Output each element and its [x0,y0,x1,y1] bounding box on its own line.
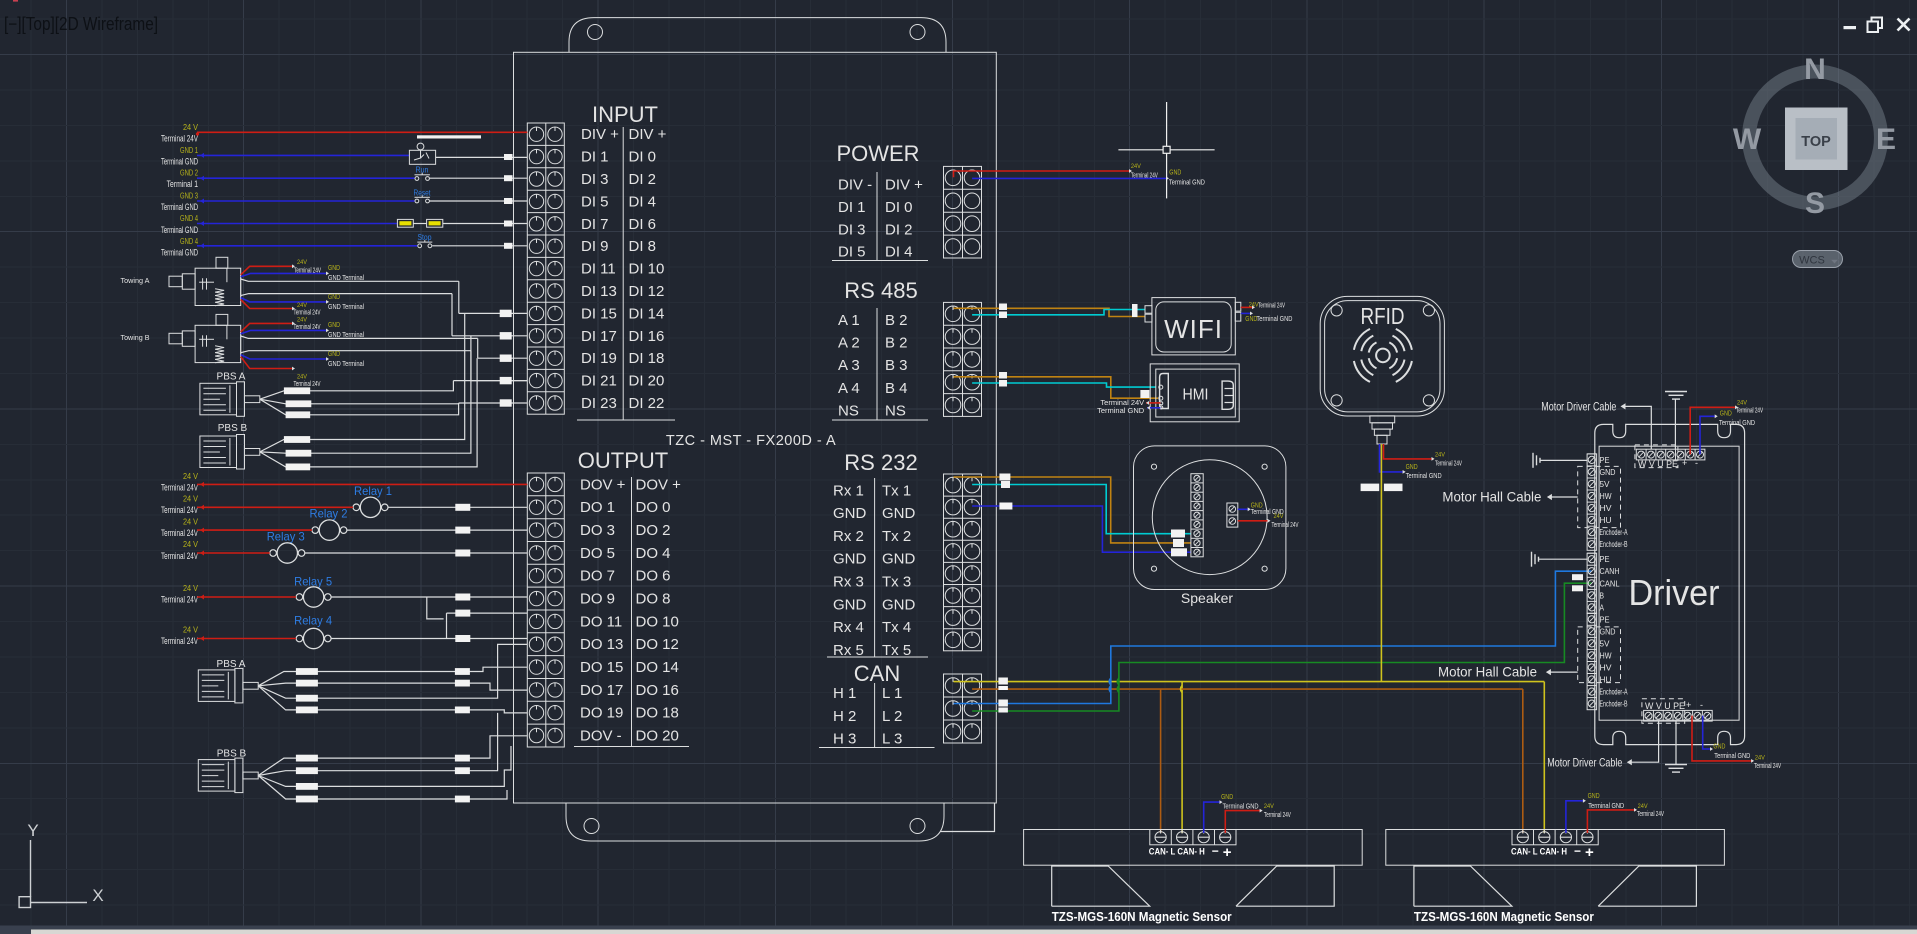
Driver top terminal strip W V U PE + - [1636,449,1705,460]
wire blue GND3 to Reset button [197,200,415,202]
svg-text:HV: HV [1600,663,1612,673]
UCS icon [19,821,104,908]
svg-text:Motor Hall Cable: Motor Hall Cable [1438,664,1537,680]
svg-text:DI 19: DI 19 [581,350,617,367]
svg-text:DI 18: DI 18 [629,350,665,367]
wire blue WIFI GND [1241,312,1293,324]
svg-text:H 1: H 1 [833,685,856,702]
svg-text:DI 4: DI 4 [629,193,657,210]
ground symbol PE upper left of driver [1533,453,1587,468]
PBS A lower fan wires [258,644,527,713]
relay 2 [310,507,348,541]
wire red to relay3 [197,552,270,554]
fuse F1 [397,219,413,227]
svg-text:DI 2: DI 2 [885,221,913,238]
label Motor Driver Cable (bottom) [1547,721,1658,769]
relay 5 [294,575,332,608]
svg-text:DI 16: DI 16 [629,328,665,345]
svg-text:GND: GND [833,551,867,568]
svg-text:TZS-MGS-160N Magnetic Sensor: TZS-MGS-160N Magnetic Sensor [1052,910,1232,924]
svg-text:GND 2: GND 2 [180,169,198,178]
wire white relay5 to DO9 with branch [331,594,527,619]
svg-text:Rx 4: Rx 4 [833,619,864,636]
svg-text:PE: PE [1600,614,1610,624]
svg-text:L 1: L 1 [882,685,902,702]
svg-text:−: − [1574,844,1581,858]
stray red mark top left [13,0,18,2]
svg-text:-: - [1695,458,1698,468]
svg-text:N: N [1804,53,1826,86]
svg-text:RFID: RFID [1361,303,1405,329]
svg-text:A 2: A 2 [838,335,860,352]
svg-text:GND: GND [328,292,340,301]
svg-text:DI 12: DI 12 [629,283,665,300]
svg-text:Terminal GND: Terminal GND [161,202,198,212]
PBS B lower connector [198,758,258,793]
magnetic sensor 2 [1386,830,1725,907]
svg-text:A 1: A 1 [838,312,860,329]
svg-text:DO 15: DO 15 [580,659,623,676]
svg-text:24V: 24V [1435,451,1446,458]
ground symbol PE mid left of driver [1532,552,1588,567]
svg-text:DI 10: DI 10 [629,261,665,278]
wire white between fuses [413,223,426,225]
window close button [1898,19,1910,31]
svg-text:NS: NS [885,402,906,419]
svg-text:CANH: CANH [1600,567,1620,576]
svg-text:DO 13: DO 13 [580,636,623,653]
wire white Run to board [429,177,527,179]
window minimize button [1844,26,1857,29]
svg-text:Terminal GND: Terminal GND [1406,471,1442,480]
svg-text:GND 4: GND 4 [180,214,198,223]
wire red RFID 24V [1384,444,1463,468]
PBS B upper connector [200,435,260,470]
svg-text:[−][Top][2D Wireframe]: [−][Top][2D Wireframe] [4,14,158,34]
svg-text:Terminal GND: Terminal GND [1714,751,1750,760]
sensor2 red 24V wire [1587,803,1664,833]
bottom scrollbar track [0,926,1917,934]
wire red to relay5 [197,596,296,598]
ground symbol below driver [1665,721,1687,772]
PBS B lower fan wires [258,713,527,802]
svg-text:Terminal 24V: Terminal 24V [161,528,198,538]
towing switch body B [169,314,241,362]
RS 232 table labels [827,478,928,659]
CAN table labels [819,683,935,748]
svg-text:Terminal 24V: Terminal 24V [161,636,198,646]
svg-text:Terminal 24V: Terminal 24V [161,483,198,493]
svg-text:+: + [1682,458,1687,468]
svg-text:HW: HW [1600,650,1612,660]
wire red 24V to board row1 [197,131,527,133]
speaker terminal strip 2-pin [1227,503,1238,527]
svg-text:DI 0: DI 0 [885,199,913,216]
svg-text:24 V: 24 V [183,626,199,635]
svg-text:24 V: 24 V [183,495,199,504]
svg-text:GND 1: GND 1 [180,146,198,155]
OUTPUT table labels DOV/DO [574,476,689,746]
svg-text:GND: GND [1221,792,1233,801]
wire white Reset to board [429,200,527,202]
wire white relay3 to DO5 [305,552,528,554]
svg-text:DI 23: DI 23 [581,395,617,412]
label Terminal 24V HMI [1100,398,1160,407]
towing A wires lower: white run, blue GND, red 24V [241,292,452,316]
svg-text:DO 8: DO 8 [636,591,671,608]
pushbutton Run [415,166,430,181]
speaker terminal strip 9-pin [1191,474,1203,557]
svg-text:S: S [1805,187,1825,220]
wire green L2 to driver CANL [972,583,1592,711]
wire white fuse F2 to board [443,223,528,225]
ViewCube navigation compass [1733,53,1896,220]
svg-text:Terminal GND: Terminal GND [1588,801,1624,810]
key switch SW1 [409,143,435,164]
wire tag blobs RS485 row1 [999,304,1138,319]
svg-text:GND: GND [1169,168,1181,177]
wire blue GND4 to Stop button [197,245,417,247]
svg-text:DI 5: DI 5 [838,244,866,261]
OUTPUT terminal strip [527,473,564,747]
sensor1 red 24V wire [1225,803,1291,833]
svg-text:DI 8: DI 8 [629,238,657,255]
svg-text:Motor Hall Cable: Motor Hall Cable [1442,489,1541,505]
svg-text:DIV +: DIV + [581,126,619,143]
svg-text:Terminal 1: Terminal 1 [167,179,198,189]
svg-text:DO 4: DO 4 [636,545,671,562]
svg-text:GND Terminal: GND Terminal [328,359,364,368]
svg-text:Terminal 24V: Terminal 24V [1272,522,1299,529]
svg-text:Terminal GND: Terminal GND [1256,314,1292,323]
svg-text:Relay 1: Relay 1 [354,484,392,498]
svg-text:WCS: WCS [1799,255,1825,267]
wire white key switch to board [436,156,528,158]
svg-text:Terminal GND: Terminal GND [1097,406,1145,415]
svg-text:GND: GND [328,349,340,358]
svg-text:DO 19: DO 19 [580,705,623,722]
svg-text:Relay 4: Relay 4 [294,614,332,628]
RFID antenna symbol [1354,329,1412,382]
svg-text:GND: GND [1720,408,1732,417]
svg-text:DI 15: DI 15 [581,305,617,322]
svg-text:DO 3: DO 3 [580,522,615,539]
svg-text:Terminal 24V: Terminal 24V [161,595,198,605]
wire brown CAN L1 bus to sensors [972,689,1523,833]
svg-text:Speaker: Speaker [1181,590,1233,606]
towing A wires upper: red 24V, blue GND, white run [241,259,459,282]
sensor2 blue GND wire [1566,791,1625,833]
svg-text:DI 0: DI 0 [629,149,657,166]
svg-text:GND: GND [882,551,916,568]
svg-text:24 V: 24 V [183,517,199,526]
ground symbol above driver [1665,392,1687,450]
Driver dashed group boxes [1578,445,1685,723]
svg-text:Enchoder-A: Enchoder-A [1600,688,1628,697]
svg-text:DO 14: DO 14 [636,659,679,676]
svg-text:GND: GND [833,596,867,613]
left wire bus verticals into INPUT strip rows 9-13 [452,281,527,430]
relay 4 [294,614,332,649]
svg-text:DO 18: DO 18 [636,705,679,722]
RFID cable gland [1370,416,1395,444]
WIFI module [1145,298,1241,355]
svg-text:Motor Driver Cable: Motor Driver Cable [1547,756,1622,770]
svg-text:OUTPUT: OUTPUT [578,448,668,473]
POWER terminal strip [944,166,982,258]
svg-text:GND Terminal: GND Terminal [328,273,364,282]
pushbutton Reset [414,188,432,203]
WCS dropdown pill [1793,251,1843,268]
svg-text:W: W [1733,123,1762,156]
svg-text:+: + [1223,844,1232,861]
svg-text:PBS B: PBS B [218,423,248,434]
svg-text:Terminal GND: Terminal GND [161,225,198,235]
svg-text:POWER: POWER [836,141,919,166]
label Motor Hall Cable (upper) [1442,489,1577,505]
PBS B upper fan wires [260,425,477,470]
svg-text:DI 6: DI 6 [629,216,657,233]
PBS A upper fan wires [260,381,459,419]
CAN terminal strip [944,674,982,743]
RFID cable tag blob [1361,484,1403,492]
wire blue RS232 to speaker [972,506,1191,552]
wire orange RS485 A4 to HMI [954,377,1159,398]
svg-text:PE: PE [1600,455,1610,465]
fuse F2 [427,219,443,227]
towing B wires upper [241,317,478,339]
svg-text:DOV +: DOV + [636,476,682,493]
svg-text:DO 1: DO 1 [580,499,615,516]
svg-text:DO 17: DO 17 [580,682,623,699]
svg-text:Terminal 24V: Terminal 24V [1754,763,1781,770]
svg-text:−: − [1212,844,1219,858]
svg-text:DOV +: DOV + [580,476,626,493]
Driver bottom terminal strip W V U PE + - [1644,710,1713,721]
svg-text:Driver: Driver [1629,572,1720,613]
svg-text:L 2: L 2 [882,708,902,725]
Driver outline [1595,424,1745,744]
wire cyan RS485 B1 to WIFI [972,310,1145,315]
svg-text:NS: NS [838,402,859,419]
svg-text:HV: HV [1600,503,1612,513]
svg-text:24V: 24V [1264,803,1275,810]
svg-text:Rx 3: Rx 3 [833,574,864,591]
controller board outline TZC-MST-FX200D-A [514,18,997,841]
Driver top strip labels [1638,458,1698,469]
svg-text:W V U PE: W V U PE [1645,701,1685,711]
svg-text:GND: GND [1600,467,1616,477]
wire yellow RFID cable down to CAN bus [1380,444,1382,682]
svg-text:Relay 3: Relay 3 [267,530,305,544]
svg-text:WIFI: WIFI [1164,314,1223,344]
svg-text:Terminal 24V: Terminal 24V [1258,302,1285,309]
svg-text:DI 9: DI 9 [581,238,609,255]
HMI module [1150,364,1239,422]
svg-text:5V: 5V [1600,479,1610,489]
svg-text:A 4: A 4 [838,380,860,397]
svg-text:W V U PE: W V U PE [1638,459,1678,469]
svg-text:GND: GND [328,263,340,272]
svg-text:Terminal GND: Terminal GND [1719,418,1755,427]
svg-text:DOV -: DOV - [580,728,622,745]
svg-text:24V: 24V [297,374,308,381]
wire blue GND1 to key switch [197,154,409,156]
svg-text:Rx 5: Rx 5 [833,642,864,659]
relay 1 [353,484,392,518]
svg-text:Terminal 24V: Terminal 24V [1435,461,1462,468]
svg-text:Terminal 24V: Terminal 24V [1637,811,1664,818]
svg-text:HU: HU [1600,515,1612,525]
svg-text:Relay 2: Relay 2 [310,507,348,521]
wire red to relay2 [197,529,312,531]
svg-text:H 3: H 3 [833,731,856,748]
wire red 24V to OUTPUT row1 [197,483,527,485]
svg-text:DI 1: DI 1 [838,199,866,216]
svg-text:TOP: TOP [1801,134,1831,150]
wire CAN-blue H2 to driver CANH [954,571,1592,703]
wire blue GND4 to fuse F1 [197,223,397,225]
svg-text:Motor Driver Cable: Motor Driver Cable [1541,400,1616,414]
svg-text:GND: GND [1251,500,1263,509]
svg-text:H 2: H 2 [833,708,856,725]
svg-text:PBS A: PBS A [217,372,246,383]
svg-text:GND: GND [1588,791,1600,800]
svg-text:B: B [1600,590,1605,600]
svg-text:GND: GND [1406,462,1418,471]
svg-text:CAN: CAN [854,661,900,686]
towing switch body A [169,257,241,305]
svg-text:Terminal 24V: Terminal 24V [161,134,198,144]
svg-text:Enchoder-A: Enchoder-A [1600,528,1628,537]
INPUT terminal strip [527,123,564,414]
wire blue RFID GND [1380,444,1443,480]
wire blue speaker GND [1238,500,1284,516]
svg-text:Tx 1: Tx 1 [882,482,911,499]
wire cyan RS485 B4 to HMI [972,383,1156,387]
wire white board corner to sensor area [940,803,995,832]
svg-text:GND 4: GND 4 [180,237,198,246]
wire white relay4 to DO13 with crossing branch [331,610,527,642]
svg-text:DI 1: DI 1 [581,149,609,166]
svg-text:GND: GND [882,505,916,522]
svg-text:DO 0: DO 0 [636,499,671,516]
svg-text:DO 12: DO 12 [636,636,679,653]
svg-text:Tx 5: Tx 5 [882,642,911,659]
svg-text:DO 10: DO 10 [636,613,679,630]
svg-text:GND: GND [882,596,916,613]
svg-text:DI 13: DI 13 [581,283,617,300]
svg-text:24V: 24V [1737,399,1748,406]
wire white Stop to board [432,245,527,247]
wire blue driver top GND [1700,408,1755,454]
label Motor Driver Cable (top) [1541,400,1651,450]
svg-text:A: A [1600,602,1605,612]
svg-text:GND 3: GND 3 [180,191,198,200]
wire orange RS485 A1 to WIFI [954,308,1146,316]
wire cyan RS232 to speaker [972,485,1191,534]
RFID reader module [1320,296,1444,416]
svg-text:Tx 4: Tx 4 [882,619,911,636]
RS232 terminal strip [944,474,982,651]
svg-text:Terminal GND: Terminal GND [1223,802,1259,811]
wire tag blobs CAN rows [998,574,1583,712]
svg-text:Terminal 24V: Terminal 24V [294,309,321,316]
svg-text:DI 22: DI 22 [629,395,665,412]
towing B wires lower [241,349,471,388]
svg-text:GND: GND [833,505,867,522]
svg-text:GND Terminal: GND Terminal [328,330,364,339]
svg-text:24 V: 24 V [183,123,199,132]
svg-text:DI 3: DI 3 [838,221,866,238]
sensor1 blue GND wire [1204,792,1259,833]
svg-text:Terminal 24V: Terminal 24V [161,551,198,561]
window restore button [1868,18,1883,33]
svg-text:DI 3: DI 3 [581,171,609,188]
svg-text:DIV +: DIV + [629,126,667,143]
svg-text:DI 11: DI 11 [581,261,616,278]
magnetic sensor 1 [1024,830,1363,907]
svg-text:L 3: L 3 [882,731,902,748]
svg-text:Rx 1: Rx 1 [833,482,864,499]
svg-text:DIV +: DIV + [885,177,923,194]
svg-text:24V: 24V [1274,513,1285,520]
svg-text:CAN- L CAN- H: CAN- L CAN- H [1149,847,1205,857]
svg-text:RS 232: RS 232 [844,450,917,475]
wire hop marks at CAN crossings [1109,678,1182,693]
wire tag blobs RS232 rows [999,474,1187,557]
wire red speaker 24V [1238,513,1299,529]
wire blue GND2 to Run button [197,177,415,179]
RS485 terminal strip [944,302,982,416]
wire red WIFI 24V [1241,301,1286,309]
svg-text:DO 20: DO 20 [636,728,679,745]
svg-text:24V: 24V [297,302,308,309]
svg-text:DI 4: DI 4 [885,244,913,261]
Speaker module [1134,446,1286,606]
wire red driver top 24V [1690,399,1763,454]
svg-text:Towing B: Towing B [121,335,150,342]
svg-text:DI 20: DI 20 [629,373,665,390]
svg-text:Tx 3: Tx 3 [882,574,911,591]
wire red to relay1 [197,506,353,508]
svg-text:24V: 24V [1131,163,1142,170]
svg-text:DI 14: DI 14 [629,305,665,322]
svg-text:DO 5: DO 5 [580,545,615,562]
PBS A lower connector [198,668,258,703]
svg-text:-: - [1700,700,1703,710]
svg-text:DO 7: DO 7 [580,568,615,585]
svg-text:Tx 2: Tx 2 [882,528,911,545]
svg-text:TZS-MGS-160N Magnetic Sensor: TZS-MGS-160N Magnetic Sensor [1414,910,1594,924]
svg-text:DO 2: DO 2 [636,522,671,539]
svg-text:Enchoder-B: Enchoder-B [1600,540,1628,549]
svg-text:24 V: 24 V [183,472,199,481]
svg-text:24V: 24V [1755,754,1766,761]
svg-text:Y: Y [27,821,38,840]
svg-text:GND: GND [1713,741,1725,750]
wire white relay2 to DO3 [347,529,527,531]
svg-text:DO 11: DO 11 [580,613,622,630]
svg-text:B 4: B 4 [885,380,908,397]
wire red driver bottom 24V [1692,716,1781,770]
label Terminal GND HMI [1097,406,1160,415]
wire tag blobs RS485 row4 [999,372,1149,398]
svg-text:Towing A: Towing A [121,278,150,285]
wire blue driver bottom GND [1703,716,1751,760]
svg-text:DO 9: DO 9 [580,591,615,608]
Driver bottom strip labels [1645,700,1703,711]
